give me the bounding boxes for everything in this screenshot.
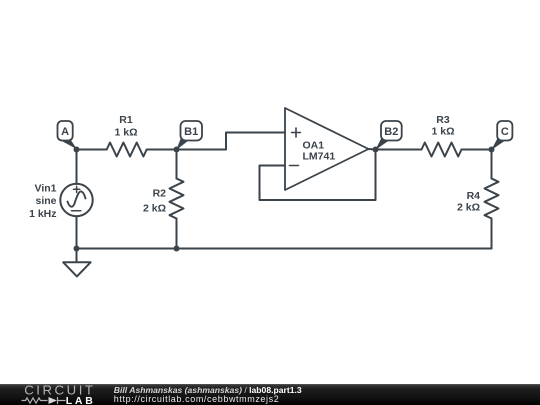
resistor R4 xyxy=(485,179,499,219)
junction node B1 xyxy=(174,147,180,153)
wire node C down to R4 xyxy=(491,150,493,179)
svg-text:2 kΩ: 2 kΩ xyxy=(457,202,480,214)
Vin1 plus sign xyxy=(74,186,80,192)
op-amp minus input symbol xyxy=(290,165,299,167)
svg-text:LAB: LAB xyxy=(66,395,96,405)
junction node B2 xyxy=(373,147,379,153)
junction node C xyxy=(489,147,495,153)
feedback wire output to inverting input xyxy=(260,150,376,201)
svg-text:1 kHz: 1 kHz xyxy=(29,208,56,220)
svg-text:1 kΩ: 1 kΩ xyxy=(114,127,137,139)
wire R2 to ground rail xyxy=(176,219,178,249)
resistor R2 xyxy=(170,179,184,219)
svg-text:http://circuitlab.com/cebbwtmm: http://circuitlab.com/cebbwtmmzejs2 xyxy=(114,394,280,404)
op-amp plus input symbol xyxy=(292,128,301,137)
node B1 label pointer xyxy=(176,138,188,150)
wire R3 to node C xyxy=(462,149,492,151)
svg-text:B2: B2 xyxy=(384,126,398,138)
wire node A to R1 xyxy=(77,149,107,151)
svg-text:LM741: LM741 xyxy=(303,151,336,163)
svg-text:A: A xyxy=(61,126,69,138)
svg-text:Vin1: Vin1 xyxy=(35,183,57,195)
svg-text:B1: B1 xyxy=(184,126,198,138)
ground symbol xyxy=(63,262,90,276)
node A label box xyxy=(58,121,73,141)
svg-text:sine: sine xyxy=(35,195,56,207)
svg-text:R3: R3 xyxy=(436,114,450,126)
Vin1 minus sign xyxy=(72,210,81,212)
node B2 label pointer xyxy=(375,138,389,150)
svg-text:C: C xyxy=(501,126,509,138)
junction node A xyxy=(74,147,80,153)
op-amp OA1 triangle xyxy=(285,108,369,190)
wire R4 to ground rail xyxy=(491,219,493,249)
svg-text:R2: R2 xyxy=(153,188,167,200)
wire Vin1 to ground rail xyxy=(76,216,78,248)
voltage source Vin1 circle xyxy=(60,184,92,216)
resistor R1 xyxy=(107,143,147,157)
wire ground rail to ground symbol xyxy=(76,249,78,263)
CircuitLab logo resistor-diode glyph xyxy=(22,397,66,404)
resistor R3 xyxy=(422,143,462,157)
svg-text:1 kΩ: 1 kΩ xyxy=(431,126,454,138)
wire R1 to node B1 xyxy=(147,149,177,151)
svg-text:2 kΩ: 2 kΩ xyxy=(143,202,166,214)
svg-text:R4: R4 xyxy=(467,190,481,202)
op-amp output pin wire xyxy=(369,148,376,151)
node C label pointer xyxy=(491,138,505,150)
wire node A down to Vin1 xyxy=(76,150,78,185)
node B1 label box xyxy=(181,121,203,141)
ground rail wire xyxy=(77,248,492,250)
svg-text:R1: R1 xyxy=(119,114,133,126)
wire node B2 to R3 xyxy=(376,149,422,151)
junction Vin1 ground xyxy=(74,246,80,252)
wire node B1 down to R2 xyxy=(176,150,178,179)
junction R2 ground xyxy=(174,246,180,252)
node A label pointer xyxy=(61,137,77,149)
wire node B1 to op-amp + input xyxy=(177,133,286,150)
node C label box xyxy=(497,121,512,141)
node B2 label box xyxy=(381,121,402,141)
Vin1 sine waveform xyxy=(68,191,86,206)
